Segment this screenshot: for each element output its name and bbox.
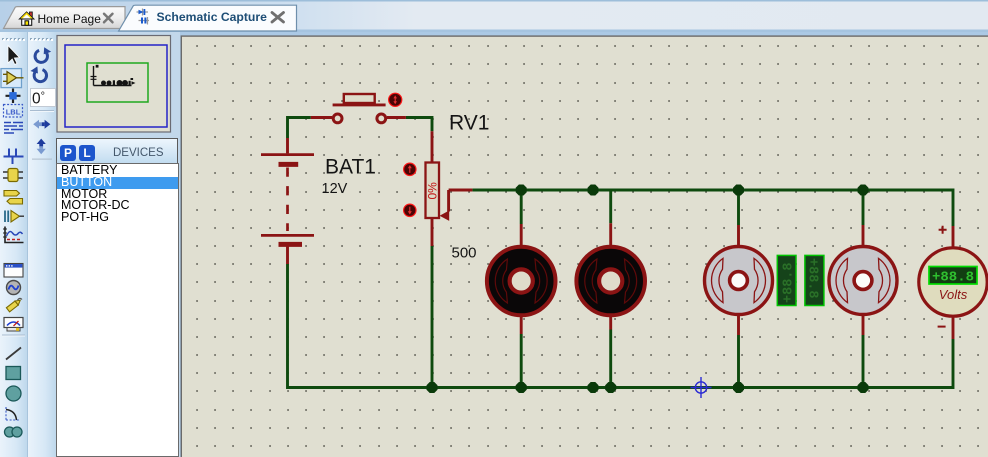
svg-text:BAT1: BAT1 [325,156,376,179]
svg-text:12V: 12V [322,181,348,197]
svg-text:+88.8: +88.8 [932,270,974,286]
svg-text:LBL: LBL [6,108,21,117]
svg-text:+88.8: +88.8 [782,262,797,303]
svg-text:500: 500 [452,245,477,262]
svg-text:Schematic Capture: Schematic Capture [157,10,268,24]
svg-text:Volts: Volts [939,287,968,302]
svg-text:RV1: RV1 [449,112,489,135]
svg-text:+88.8: +88.8 [805,258,820,299]
svg-text:0%: 0% [426,182,440,200]
svg-text:Home Page: Home Page [38,12,102,26]
